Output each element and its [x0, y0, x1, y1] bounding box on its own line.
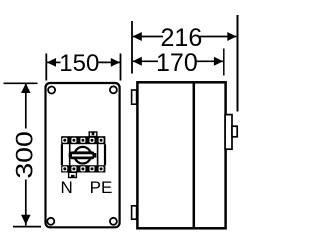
svg-text:150: 150	[59, 50, 99, 77]
svg-text:N: N	[60, 178, 72, 197]
svg-text:170: 170	[156, 49, 198, 77]
svg-text:216: 216	[161, 24, 203, 52]
svg-text:PE: PE	[90, 178, 113, 197]
svg-text:300: 300	[12, 131, 39, 179]
